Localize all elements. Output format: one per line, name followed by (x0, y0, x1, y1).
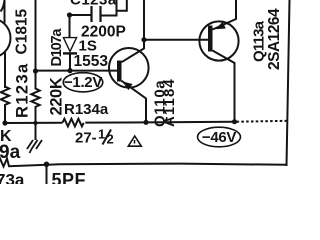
svg-text:R123a: R123a (14, 62, 32, 118)
svg-text:5PF: 5PF (52, 170, 87, 184)
svg-text:1S: 1S (79, 38, 97, 55)
svg-text:73a: 73a (0, 171, 25, 185)
svg-text:A1184: A1184 (161, 78, 178, 127)
svg-text:−46V: −46V (202, 129, 237, 146)
svg-text:2: 2 (107, 132, 114, 147)
svg-text:Q113a: Q113a (251, 20, 268, 62)
svg-text:27-: 27- (75, 130, 97, 147)
svg-text:1553: 1553 (74, 53, 109, 70)
svg-text:2SA1264: 2SA1264 (266, 8, 283, 70)
svg-text:C123a: C123a (70, 0, 117, 9)
svg-text:1: 1 (98, 127, 105, 142)
svg-text:R134a: R134a (64, 101, 109, 118)
svg-text:C1815: C1815 (14, 8, 31, 54)
svg-text:D107a: D107a (49, 28, 65, 67)
svg-text:220K: 220K (48, 77, 66, 115)
svg-text:9a: 9a (0, 142, 21, 163)
svg-text:−1.2V: −1.2V (64, 74, 102, 91)
